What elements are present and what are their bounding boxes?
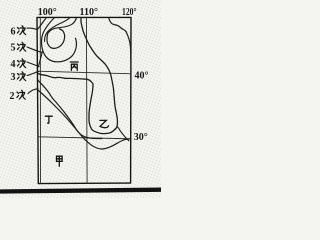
bottom black bar (0, 190, 161, 192)
svg-text:120°: 120° (122, 7, 137, 18)
contour NE corner (109, 18, 131, 59)
leader 6次 (27, 28, 38, 29)
contour nest spiral core (47, 18, 77, 49)
meridian 100E (39, 17, 41, 183)
contour diagonal south (2次) (38, 90, 131, 149)
contour tongue around 乙 (3次) (38, 18, 117, 134)
glyph 次 (4次) (17, 59, 25, 68)
svg-text:5: 5 (11, 43, 16, 54)
glyph 甲 (57, 156, 63, 166)
svg-text:30°: 30° (134, 132, 148, 143)
svg-text:6: 6 (11, 27, 16, 38)
svg-text:3: 3 (11, 72, 16, 83)
parallel 30N (38, 137, 131, 139)
paper background (0, 0, 161, 198)
svg-text:110°: 110° (80, 7, 98, 18)
meridian 110E (85, 17, 88, 183)
contour sweep (4次) (38, 52, 42, 68)
svg-text:4: 4 (11, 59, 16, 70)
svg-text:100°: 100° (38, 7, 57, 18)
leader 2次 (28, 89, 38, 94)
map frame (37, 17, 131, 183)
contour nest middle sweep (45, 18, 70, 42)
parallel 40N (37, 71, 131, 74)
leader 3次 (27, 71, 39, 75)
glyph 乙 (100, 120, 109, 127)
svg-text:2: 2 (10, 91, 15, 102)
glyph 丙 (70, 62, 78, 70)
leader 5次 (27, 47, 42, 52)
contour corner arc (6次) (37, 18, 46, 30)
svg-text:40°: 40° (135, 71, 149, 82)
glyph 次 (3次) (17, 72, 25, 81)
glyph 次 (6次) (17, 26, 25, 35)
glyph 丁 (45, 116, 52, 123)
glyph 次 (2次) (17, 90, 25, 99)
leader 4次 (27, 62, 39, 67)
glyph 次 (5次) (17, 42, 25, 51)
contour diagonal north (exits at 30N) (38, 80, 102, 139)
contour spur SE of 乙 loop (118, 127, 129, 141)
contour outer C loop (5次) (42, 18, 77, 62)
